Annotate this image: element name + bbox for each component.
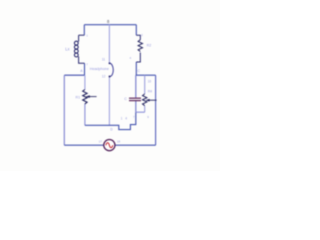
svg-text:R2: R2 [147, 44, 152, 48]
svg-text:4: 4 [130, 56, 132, 60]
svg-text:8: 8 [107, 19, 110, 24]
svg-text:4: 4 [125, 117, 127, 121]
svg-text:D: D [110, 128, 113, 132]
svg-text:17: 17 [99, 139, 103, 143]
svg-text:C: C [137, 69, 140, 73]
svg-text:1: 1 [86, 33, 88, 37]
svg-text:Headphone: Headphone [90, 67, 109, 71]
svg-text:10: 10 [148, 79, 152, 83]
svg-text:7: 7 [133, 115, 135, 119]
svg-text:2: 2 [141, 33, 143, 37]
svg-text:9: 9 [147, 115, 149, 119]
svg-text:7: 7 [86, 62, 88, 66]
svg-text:R1: R1 [76, 95, 81, 99]
svg-text:C: C [124, 97, 127, 101]
svg-text:1: 1 [121, 117, 123, 121]
svg-text:A: A [80, 69, 83, 73]
svg-text:R4: R4 [148, 90, 152, 94]
svg-text:18: 18 [117, 139, 121, 143]
svg-text:11: 11 [102, 57, 106, 61]
svg-text:12: 12 [102, 74, 106, 78]
svg-text:Lx: Lx [65, 47, 70, 52]
